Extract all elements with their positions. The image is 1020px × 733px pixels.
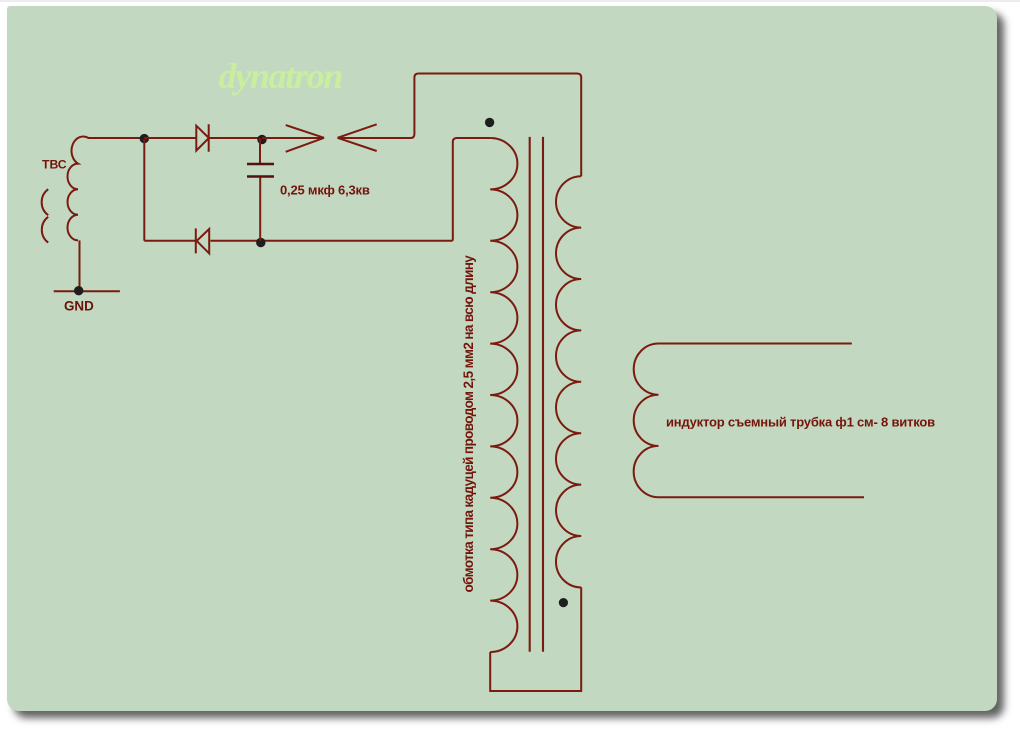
svg-text:GND: GND [64,299,94,314]
top rail [418,74,581,177]
diode D2 [196,228,209,253]
svg-text:ТВС: ТВС [42,158,67,172]
node C junction [256,238,265,247]
inductor L1 removable [634,343,864,497]
core line left [529,137,531,652]
svg-text:dynatron: dynatron [219,56,343,96]
capacitor C1 lead bottom [259,178,261,241]
capacitor C1 plates [247,164,274,177]
transformer TVS coil [68,136,145,240]
bottom connecting loop [490,587,581,691]
node E terminal dot [559,598,568,607]
svg-text:индуктор съемный трубка ф1 см-: индуктор съемный трубка ф1 см- 8 витков [666,414,935,429]
wire node A down [143,139,145,241]
svg-text:0,25 мкф 6,3кв: 0,25 мкф 6,3кв [280,183,370,198]
ground rail [54,290,120,292]
node A junction [140,134,149,143]
capacitor C1 lead top [259,138,261,164]
spark gap right electrode [338,124,377,151]
lower bus wire right [210,240,452,242]
node D terminal dot [485,118,494,127]
wire D1 to node B [209,137,262,139]
lower bus wire left [144,240,196,242]
core arcs [42,189,49,242]
spark gap left electrode [286,125,324,152]
primary winding left (caduceus) [490,138,517,652]
svg-text:обмотка типа кадуцей проводом: обмотка типа кадуцей проводом 2,5 мм2 на… [461,255,476,593]
node B junction [257,135,266,144]
wire coil to ground [79,240,81,291]
diode D1 [196,124,209,152]
wire spark gap to top rail [338,74,419,139]
secondary winding right [556,176,581,587]
ground node junction [74,286,83,295]
core line right [542,137,544,652]
wire lower bus up to primary top [453,138,490,241]
wire node A to diode D1 [144,137,196,139]
wire node B to spark gap [262,137,324,139]
